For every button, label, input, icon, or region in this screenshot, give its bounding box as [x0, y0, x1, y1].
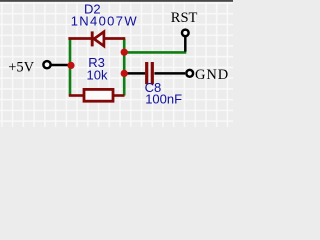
- svg-text:GND: GND: [195, 67, 229, 83]
- power port +5V open terminal circle: [43, 61, 50, 68]
- junction dot at capacitor branch: [121, 70, 128, 77]
- diode triangle: [94, 32, 104, 46]
- resistor left lead: [69, 94, 84, 97]
- capacitor C8: [126, 62, 185, 84]
- diode D2: [68, 31, 125, 46]
- junction dot at +5V tap: [67, 62, 74, 69]
- capacitor left plate: [145, 62, 148, 84]
- svg-text:100nF: 100nF: [145, 91, 182, 106]
- diode horizontal lead wire: [68, 37, 125, 40]
- wire: right vertical net: [123, 39, 126, 96]
- grid background: [0, 0, 233, 127]
- port RST pin stub: [184, 37, 187, 52]
- capacitor right plate: [151, 62, 154, 84]
- port RST open terminal circle: [182, 30, 189, 37]
- svg-text:RST: RST: [171, 10, 198, 26]
- wire: RST horizontal segment: [124, 51, 186, 54]
- power port +5V pin wire: [52, 64, 70, 67]
- capacitor right pin wire: [154, 72, 185, 75]
- resistor R3: [69, 89, 125, 101]
- capacitor left pin wire: [126, 72, 145, 75]
- resistor right lead: [113, 94, 125, 97]
- wire: left vertical net (+5V rail): [69, 39, 72, 96]
- resistor body: [84, 89, 113, 101]
- top window edge bar: [0, 0, 233, 2]
- junction dot at RST branch: [121, 49, 128, 56]
- port GND open terminal circle: [186, 70, 193, 77]
- diode cathode bar: [91, 31, 94, 46]
- svg-text:1N4007W: 1N4007W: [71, 13, 138, 28]
- svg-text:+5V: +5V: [8, 60, 34, 76]
- svg-text:10k: 10k: [87, 68, 108, 83]
